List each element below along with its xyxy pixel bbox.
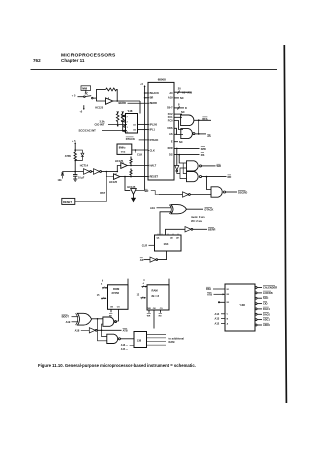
- buffer U2c HC125 (RESET): [106, 172, 148, 180]
- svg-text:LCD/KB: LCD/KB: [263, 291, 273, 295]
- wire A18 to G7: [102, 330, 107, 336]
- svg-text:SCC: SCC: [263, 296, 269, 300]
- wire to RESET box: [75, 172, 107, 202]
- wire OR out to G7 lower input: [98, 319, 107, 341]
- label DTACK left: [126, 137, 148, 141]
- label A18: [75, 329, 90, 333]
- inverter I5b: [94, 169, 119, 175]
- svg-text:8MHz: 8MHz: [119, 145, 126, 149]
- ROM data bus riser: [127, 279, 129, 285]
- resistor R2 (debounce feedback): [97, 88, 118, 101]
- label RFA into '138: [206, 287, 225, 291]
- svg-text:E2: E2: [227, 294, 230, 296]
- label WR: [217, 164, 221, 168]
- capacitor C1 10uF: [73, 171, 85, 180]
- svg-text:DSCRD: DSCRD: [238, 190, 247, 194]
- svg-text:RST: RST: [100, 192, 105, 195]
- wire FC2 to gate G1: [174, 113, 182, 115]
- RAM upper address arrow: [142, 279, 148, 288]
- svg-text:2: 2: [127, 122, 129, 124]
- svg-text:mem: 0 ws: mem: 0 ws: [191, 215, 205, 219]
- svg-text:CIO: CIO: [263, 302, 268, 306]
- wire A0-A19 address bus: [174, 87, 193, 95]
- svg-text:DAC0: DAC0: [263, 312, 271, 316]
- svg-text:CALENDER: CALENDER: [263, 286, 277, 290]
- label AS in: [140, 258, 144, 262]
- svg-text:4: 4: [143, 282, 145, 285]
- svg-text:'148: '148: [127, 109, 133, 113]
- svg-text:20: 20: [178, 87, 181, 91]
- buffer U2a HC125 (debounce): [97, 97, 141, 104]
- or gate G9 (DTACK): [169, 205, 203, 214]
- U1 left pin input wedges: [148, 92, 149, 177]
- RAM WE wire: [147, 310, 151, 318]
- svg-text:RD: RD: [159, 316, 163, 318]
- ROM upper address arrow: [101, 280, 108, 290]
- svg-text:8k × 8: 8k × 8: [152, 294, 160, 298]
- labels A18- A15-: [121, 344, 134, 351]
- note wait states: [191, 215, 205, 223]
- wire DS branch to G4: [183, 163, 186, 174]
- RAM OE wire: [159, 310, 163, 318]
- resistor R4 pull-up: [121, 112, 124, 132]
- svg-text:12: 12: [137, 295, 140, 297]
- inverter I2 (BR sense): [159, 192, 211, 197]
- svg-text:I/O: 2 ws: I/O: 2 ws: [191, 219, 203, 223]
- U1 right pin labels: [167, 91, 173, 156]
- svg-text:138: 138: [137, 338, 142, 342]
- svg-text:DTACK: DTACK: [205, 208, 214, 212]
- RAM U7: [147, 285, 169, 310]
- svg-text:DAC1: DAC1: [263, 307, 271, 311]
- label STB into '138: [207, 292, 225, 296]
- svg-text:CLR: CLR: [142, 243, 147, 247]
- RAM CS long wire: [153, 310, 155, 329]
- nand gate G2 (AS qualify): [181, 120, 206, 138]
- svg-text:QA: QA: [157, 236, 160, 239]
- svg-text:OE: OE: [110, 306, 114, 308]
- priority encoder U4 '148: [121, 109, 138, 133]
- svg-text:A12: A12: [215, 321, 220, 325]
- svg-text:FC0: FC0: [168, 118, 173, 122]
- svg-text:ATB: ATB: [207, 292, 212, 296]
- svg-text:A0 - A19: A0 - A19: [182, 90, 193, 94]
- svg-text:ADC0: ADC0: [263, 323, 271, 327]
- nand gate G3 (WR): [187, 161, 216, 171]
- E3 node dot: [218, 301, 225, 303]
- ROM CS wire from G6: [117, 309, 118, 321]
- label BERR out: [208, 228, 215, 232]
- svg-text:DTACK: DTACK: [150, 138, 159, 142]
- svg-text:A14: A14: [215, 312, 220, 316]
- buffer U2d HC125 (BR driver): [127, 185, 136, 198]
- svg-text:QD: QD: [170, 237, 173, 239]
- svg-text:A13: A13: [215, 317, 220, 321]
- inverter I7 (R/W invert, on drop): [175, 166, 180, 174]
- svg-text:HC125: HC125: [115, 159, 124, 163]
- svg-text:IPL2/0: IPL2/0: [150, 122, 158, 126]
- NMI label box: [81, 86, 91, 91]
- svg-text:SCC/CAC INT: SCC/CAC INT: [79, 129, 97, 133]
- svg-text:A0: A0: [133, 129, 137, 132]
- svg-text:A18 —: A18 —: [121, 344, 129, 347]
- CPU U1 68008: [148, 77, 174, 180]
- RAM 12-wide address arrow: [137, 295, 146, 300]
- ground under C1: [73, 179, 77, 181]
- inverter I3 (BERR): [185, 227, 207, 232]
- svg-text:+5: +5: [140, 84, 143, 86]
- +5 stub under switch: [80, 105, 85, 113]
- svg-text:7: 7: [127, 116, 129, 118]
- nand gate G7 (RAM select): [107, 334, 134, 343]
- label CLR: [142, 243, 155, 247]
- wire RD down to G5: [207, 177, 212, 190]
- svg-text:DS: DS: [169, 152, 173, 156]
- svg-text:A1: A1: [133, 123, 137, 126]
- label A19 net: [150, 206, 172, 210]
- svg-text:1: 1: [127, 127, 129, 129]
- svg-text:to additional: to additional: [169, 336, 185, 340]
- switch S1 (NMI): [78, 96, 97, 99]
- inverter I4 (AS to clock): [144, 257, 158, 262]
- inverter I6 (A18): [89, 328, 121, 333]
- +5 for ATPA pull-up: [72, 140, 76, 152]
- label BR net: [145, 189, 160, 194]
- svg-text:A19: A19: [168, 96, 173, 100]
- RESET box: [62, 198, 75, 204]
- svg-text:A15 —: A15 —: [121, 348, 129, 351]
- svg-text:E: E: [171, 140, 173, 144]
- svg-text:CLK: CLK: [150, 148, 155, 152]
- RAM data bus riser: [168, 279, 170, 285]
- svg-text:27256: 27256: [112, 291, 120, 295]
- svg-text:8: 8: [178, 102, 180, 106]
- svg-text:ATPA: ATPA: [65, 155, 72, 158]
- svg-text:AS: AS: [140, 258, 144, 262]
- svg-text:IPL1: IPL1: [150, 128, 156, 132]
- svg-text:BERR: BERR: [119, 101, 126, 105]
- svg-text:NC: NC: [85, 94, 89, 96]
- svg-text:A18: A18: [75, 329, 80, 333]
- wire '148 A0 to IPL1: [138, 129, 149, 131]
- svg-text:A19: A19: [150, 206, 155, 210]
- wire POR node: [75, 161, 83, 172]
- wire R/W: [174, 146, 206, 151]
- caption: [38, 363, 196, 368]
- wire NMI box to switch: [85, 90, 87, 93]
- svg-text:Chapter 11: Chapter 11: [61, 58, 85, 63]
- svg-text:BR: BR: [150, 96, 154, 100]
- svg-text:RESET: RESET: [63, 200, 72, 204]
- wire I7 branch to G4: [180, 174, 187, 179]
- ROM U5 27256: [108, 285, 129, 310]
- svg-text:E3: E3: [227, 302, 230, 304]
- label BERR left: [119, 101, 149, 105]
- label CIO INT: [95, 123, 128, 127]
- svg-text:+5: +5: [80, 112, 83, 114]
- label DSCRD: [238, 190, 247, 194]
- svg-text:10k: 10k: [58, 179, 63, 182]
- resistor R7 pull-up RESET: [130, 169, 132, 177]
- and gate G6 (ROM select): [103, 317, 117, 326]
- label A19 in: [66, 320, 78, 324]
- svg-text:CIO INT: CIO INT: [95, 123, 105, 127]
- ROM OE wire: [109, 309, 113, 317]
- svg-text:C: C: [227, 314, 229, 316]
- svg-text:E1: E1: [227, 289, 230, 291]
- resistor R6 pull-up HALT: [130, 157, 132, 166]
- wire AS stub: [174, 133, 177, 135]
- wire BR rail down: [144, 98, 146, 191]
- svg-text:HCT14: HCT14: [80, 163, 89, 167]
- svg-text:NC: NC: [179, 140, 183, 144]
- wire RESET line down to BR driver: [125, 177, 130, 191]
- label ATB: [123, 328, 128, 332]
- svg-text:CS: CS: [117, 306, 121, 308]
- diode D1 (across R5): [74, 150, 84, 161]
- wire A19 NC stub: [174, 96, 184, 100]
- svg-text:HC125: HC125: [109, 180, 118, 184]
- header rule: [31, 69, 278, 71]
- wire shiftreg tap to G9: [160, 212, 172, 235]
- svg-text:68008: 68008: [158, 77, 166, 81]
- wire R/W down to G3: [176, 148, 178, 165]
- svg-text:10 µF: 10 µF: [78, 177, 85, 180]
- wire '164 clock from AS: [158, 251, 167, 260]
- wire shiftreg tap to I3: [166, 229, 186, 235]
- label SCC/CAC INT: [79, 129, 128, 133]
- shift register U3 '164 (DTACK delay): [155, 234, 182, 251]
- '138 outputs: [255, 286, 277, 328]
- svg-text:NC: NC: [180, 96, 184, 100]
- nand gate G1 (FC decode): [181, 115, 211, 126]
- wire I7 out branch to G3: [180, 168, 187, 174]
- nand gate G4 (RD): [187, 172, 227, 182]
- svg-text:RFA: RFA: [206, 287, 211, 291]
- svg-text:ROM: ROM: [113, 287, 120, 291]
- svg-text:CLK: CLK: [137, 152, 142, 156]
- svg-text:WR: WR: [217, 164, 221, 168]
- svg-text:+ 5: + 5: [72, 140, 76, 143]
- svg-text:15: 15: [97, 295, 100, 297]
- label CLK net: [135, 150, 142, 156]
- decoder U6 (RAM banks): [134, 332, 147, 348]
- inverter I5a: [84, 169, 94, 175]
- svg-text:B: B: [227, 319, 229, 321]
- svg-text:A: A: [227, 322, 229, 325]
- label RFA: [202, 117, 207, 121]
- svg-text:ATB: ATB: [123, 328, 128, 332]
- svg-text:BERR: BERR: [150, 101, 157, 105]
- fanout to additional RAM: [147, 334, 167, 345]
- ground under U2d: [131, 198, 136, 202]
- wire '148 A1 to IPL2/0: [138, 123, 149, 125]
- oscillator X1 8MHz: [117, 144, 148, 154]
- svg-text:HALT: HALT: [150, 164, 157, 168]
- wire A18 to G6: [102, 324, 103, 330]
- buffer U2b HC125 (HALT): [115, 159, 148, 172]
- svg-text:NMI: NMI: [82, 87, 87, 91]
- resistor R3 pull-up 3.3k: [116, 112, 119, 127]
- svg-text:RESET: RESET: [150, 175, 159, 179]
- svg-text:A19: A19: [66, 320, 71, 324]
- svg-text:164: 164: [164, 242, 169, 246]
- ROM 15-wide address arrow: [97, 295, 107, 300]
- svg-text:ADC1: ADC1: [263, 318, 271, 322]
- resistor R5 (ATPA pull-up): [74, 152, 76, 160]
- label BOOT: [62, 315, 78, 319]
- svg-text:BR: BR: [145, 189, 149, 193]
- wire D0-7 data bus: [174, 102, 187, 110]
- nand gate G5 (DSCRD): [211, 187, 237, 197]
- svg-text:NC: NC: [181, 110, 185, 114]
- svg-text:BERR: BERR: [208, 228, 215, 232]
- wire U2d to BR rail: [136, 189, 145, 191]
- svg-text:RFA: RFA: [202, 117, 207, 121]
- svg-text:RAM: RAM: [169, 340, 175, 344]
- or gate G8 (BOOT+A19): [76, 313, 103, 325]
- svg-text:BGACK: BGACK: [150, 91, 159, 95]
- BGACK/BR pull-up node: [140, 84, 148, 99]
- wire into '148 IRQ7: [139, 101, 141, 114]
- wire DS: [174, 153, 205, 158]
- header running head: [33, 53, 116, 63]
- label DTACK out: [205, 208, 214, 212]
- svg-text:RD: RD: [228, 175, 232, 179]
- wire FC0 to gate G2: [174, 121, 183, 130]
- svg-text:osc: osc: [121, 151, 126, 154]
- svg-text:D: D: [185, 106, 187, 110]
- svg-text:R/W: R/W: [168, 146, 174, 150]
- svg-text:R/W: R/W: [201, 147, 207, 151]
- svg-text:DS: DS: [201, 153, 205, 157]
- wire E NC stub: [174, 140, 183, 144]
- svg-text:'138: '138: [240, 303, 246, 307]
- svg-text:AS: AS: [207, 134, 211, 138]
- svg-text:A0: A0: [169, 91, 173, 95]
- wire FC1 to gate G1: [174, 116, 182, 118]
- svg-text:762: 762: [33, 58, 41, 63]
- label AS out: [207, 134, 211, 138]
- svg-text:DTACK: DTACK: [126, 137, 135, 141]
- svg-text:+ 5: + 5: [72, 95, 76, 98]
- svg-text:RAM: RAM: [152, 288, 159, 292]
- wire DS down to G3/G4: [179, 155, 186, 163]
- svg-text:BOOT: BOOT: [62, 315, 70, 319]
- address decoder U8 '138: [225, 284, 255, 331]
- page edge (scan shadow): [284, 45, 286, 403]
- svg-text:AS: AS: [169, 132, 173, 136]
- label RD: [228, 175, 232, 179]
- svg-text:UDS: UDS: [167, 126, 173, 130]
- wire UDS to gate G2: [174, 128, 183, 134]
- svg-text:HC125: HC125: [95, 106, 103, 109]
- U1 left pin labels: [150, 91, 159, 179]
- svg-text:WR: WR: [147, 316, 151, 318]
- svg-text:D0-7: D0-7: [167, 106, 173, 110]
- diode D2: [61, 172, 75, 179]
- svg-text:4: 4: [101, 282, 103, 285]
- labels A14 A13 A12: [215, 312, 226, 326]
- svg-text:Figure 11.10. General-purpose: Figure 11.10. General-purpose microproce…: [38, 363, 196, 368]
- svg-text:QH: QH: [176, 237, 179, 239]
- label to additional RAM: [169, 336, 185, 344]
